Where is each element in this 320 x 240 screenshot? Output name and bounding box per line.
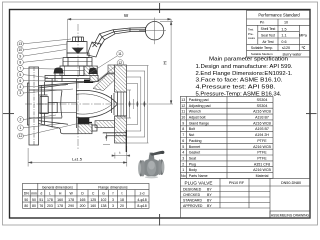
wrench handle (item 11) [95,27,146,48]
svg-text:H: H [163,61,168,64]
svg-text:DESIGNED: DESIGNED [183,187,202,191]
body A216 WCB (item 1) outline [39,73,115,134]
svg-text:Pre-: Pre- [248,32,253,36]
balloon group lower-left [18,117,24,139]
svg-text:4-φ18: 4-φ18 [137,198,146,202]
svg-text:BY: BY [207,193,212,197]
wrench ball end [145,22,163,40]
bonnet A216 WCB (item 5) flange band [45,76,98,82]
castle nut top (item 11 wrench retainer) [71,37,86,42]
seat PTFE (item 3) [112,92,127,116]
balloon leaders upper [23,39,73,93]
svg-text:Main parameter specification: Main parameter specification [209,57,288,63]
svg-text:BY: BY [207,204,212,208]
svg-text:200: 200 [80,204,86,208]
svg-text:178: 178 [68,198,74,202]
dimension H [149,19,173,104]
svg-text:A193 B7: A193 B7 [255,127,269,131]
svg-text:13: 13 [181,98,185,102]
flange diameter dims right side [117,66,149,144]
dimension L±1.5 [28,146,127,167]
svg-text:A216 WCB: A216 WCB [253,168,271,172]
svg-text:5: 5 [19,73,21,77]
nut+bolt left (items 7,8) [54,68,64,82]
svg-text:mm: mm [31,192,37,196]
svg-text:t: t [120,151,121,155]
svg-text:Plug: Plug [189,162,196,166]
svg-text:7: 7 [19,67,21,71]
svg-text:Packing: Packing [189,139,202,143]
nut+bolt right (items 7,8) sectioned [84,66,98,76]
svg-text:6: 6 [19,79,21,83]
svg-text:Gasket: Gasket [189,151,200,155]
svg-text:Body: Body [189,168,197,172]
svg-text:2: 2 [20,118,22,122]
svg-text:102: 102 [101,198,107,202]
svg-text:80: 80 [32,204,36,208]
svg-text:d: d [40,192,42,196]
svg-text:20: 20 [120,204,124,208]
svg-text:12: 12 [118,61,122,65]
svg-text:Material: Material [256,174,269,178]
dimension W [68,18,172,42]
sheet centre tick bottom [159,214,161,226]
svg-text:3: 3 [112,198,114,202]
svg-text:1: 1 [182,168,184,172]
svg-text:PTFE: PTFE [257,157,267,161]
vertical centerline [77,24,79,150]
sheet centre tick left [3,113,14,115]
svg-text:L±1.5: L±1.5 [72,156,83,161]
svg-text:G: G [102,192,105,196]
svg-text:4: 4 [182,151,184,155]
sheet centre tick right [306,113,317,115]
svg-text:8: 8 [19,61,21,65]
body bottom wall (sectioned) [95,121,115,128]
svg-text:Suitable Medium:: Suitable Medium: [251,52,274,56]
svg-text:Packing pad: Packing pad [189,98,209,102]
svg-text:Bolt: Bolt [189,127,195,131]
svg-text:1: 1 [20,126,22,130]
flange bottom lip lines [103,130,127,152]
svg-text:Gland flange: Gland flange [189,121,209,125]
horizontal centerline [25,103,149,105]
svg-text:ssure: ssure [248,36,255,40]
svg-text:MPa: MPa [299,34,308,38]
svg-text:L: L [49,192,51,196]
gland body with packing (item 6) [67,42,87,54]
svg-text:10: 10 [284,21,288,25]
svg-text:Seat: Seat [189,157,196,161]
ball centrelines [154,18,156,45]
svg-text:W: W [124,13,129,18]
svg-text:Adjusting pad: Adjusting pad [189,104,211,108]
svg-text:A216 WCB: A216 WCB [253,145,271,149]
seat ring top (dark) [84,80,94,83]
svg-text:9: 9 [182,121,184,125]
svg-text:A193 B7: A193 B7 [255,116,269,120]
svg-text:4: 4 [19,85,21,89]
svg-text:8: 8 [182,127,184,131]
svg-text:Flange dimensions: Flange dimensions [98,185,128,189]
balloon leaders lower [23,115,78,136]
svg-text:STANDARD: STANDARD [183,198,202,202]
svg-text:1.Design and manufacture: API: 1.Design and manufacture: API 599. [196,64,293,70]
svg-text:Performance Standard: Performance Standard [258,13,300,18]
svg-text:Air Test: Air Test [262,40,273,44]
svg-text:18: 18 [120,198,124,202]
svg-text:f: f [113,192,114,196]
svg-text:A216 WCB: A216 WCB [253,110,271,114]
wrench root boss [87,42,101,57]
svg-text:11: 11 [118,52,122,56]
svg-text:2: 2 [182,162,184,166]
svg-text:Wrench: Wrench [189,110,201,114]
svg-text:6: 6 [182,139,184,143]
svg-text:Test: Test [248,27,253,31]
adjusting pad (item 12) bottom hatched block [78,123,97,134]
svg-text:76: 76 [39,204,43,208]
svg-text:General dimensions: General dimensions [42,185,73,189]
svg-text:4.Pressure test: API 598.: 4.Pressure test: API 598. [196,85,276,91]
svg-text:1.1: 1.1 [281,34,286,38]
right flange (sectioned, hatched) [108,65,127,143]
svg-text:9: 9 [19,54,21,58]
svg-text:178: 178 [57,204,63,208]
svg-text:BY: BY [207,187,212,191]
svg-text:51: 51 [39,198,43,202]
balloon group upper-left [17,41,23,96]
svg-text:≤120: ≤120 [282,46,290,50]
packing box blocks [60,58,92,76]
balloons middle (pointing to packing gland) [90,51,124,83]
svg-text:t: t [122,192,123,196]
svg-text:290: 290 [68,204,74,208]
svg-text:80: 80 [24,204,28,208]
svg-text:50: 50 [32,198,36,202]
svg-text:138: 138 [101,204,107,208]
svg-text:Pn: Pn [260,21,265,25]
svg-text:203: 203 [47,204,53,208]
svg-text:8-φ18: 8-φ18 [137,204,146,208]
svg-text:Parts Name: Parts Name [189,174,208,178]
svg-text:Bonnet: Bonnet [189,145,200,149]
gland flange (item 9) plate [67,53,89,58]
svg-text:10: 10 [18,48,22,52]
svg-text:11: 11 [181,110,185,114]
svg-text:3: 3 [112,204,114,208]
svg-text:10: 10 [181,116,185,120]
svg-text:Suitable Temp.: Suitable Temp. [251,46,273,50]
svg-text:SS304: SS304 [257,104,268,108]
svg-text:2.End Flange Dimensions:EN1092: 2.End Flange Dimensions:EN1092-1. [196,71,293,77]
svg-text:PN10 RF: PN10 RF [229,181,245,185]
svg-text:BY: BY [207,198,212,202]
svg-text:0.6: 0.6 [281,40,286,44]
svg-text:DN50-DN80: DN50-DN80 [281,181,301,185]
plug A351 CF8 (item 2) tapered cone [48,79,117,129]
svg-text:178: 178 [47,198,53,202]
svg-text:ASSEMBLING DRAWING: ASSEMBLING DRAWING [271,214,310,218]
svg-text:PTFE: PTFE [257,151,267,155]
svg-text:A216 WCB: A216 WCB [253,121,271,125]
svg-text:No: No [181,174,186,178]
svg-text:Nut: Nut [189,133,195,137]
svg-text:13: 13 [18,42,22,46]
svg-text:Adjust bolt: Adjust bolt [189,116,206,120]
sheet centre tick top [159,3,161,13]
svg-text:PLUG VALVE: PLUG VALVE [185,181,213,186]
svg-text:A351 CF8: A351 CF8 [254,162,270,166]
svg-text:160: 160 [90,204,96,208]
svg-text:z-d: z-d [140,192,145,196]
raised face f dim [103,133,114,145]
flange thickness t dim [112,151,130,158]
svg-text:PTFE: PTFE [257,139,267,143]
svg-text:7: 7 [182,133,184,137]
svg-text:3.Face to face: ASME B16.10.: 3.Face to face: ASME B16.10. [196,78,283,84]
svg-text:CHECKED: CHECKED [183,193,201,197]
svg-text:APPROVED: APPROVED [183,204,203,208]
svg-text:DN: DN [24,192,30,196]
svg-text:Shell Test: Shell Test [261,27,276,31]
svg-text:1.5: 1.5 [281,27,286,31]
left flange [28,67,39,145]
svg-text:5: 5 [182,145,184,149]
svg-text:165: 165 [80,198,86,202]
svg-text:12: 12 [181,104,185,108]
svg-text:3: 3 [19,91,21,95]
shoulder hatch [93,74,115,91]
svg-text:50: 50 [24,198,28,202]
svg-text:160: 160 [57,198,63,202]
svg-text:12: 12 [19,134,23,138]
svg-text:Seal Test: Seal Test [261,34,275,38]
svg-text:125: 125 [90,198,96,202]
seat ring bottom (dark) [78,118,90,125]
svg-text:A194 2H: A194 2H [255,133,269,137]
svg-text:SS304: SS304 [257,98,268,102]
svg-text:3: 3 [182,157,184,161]
